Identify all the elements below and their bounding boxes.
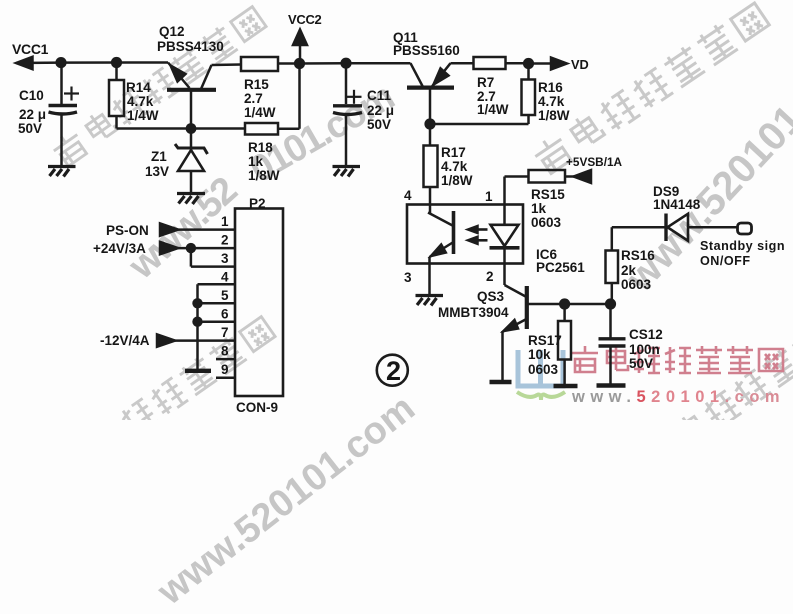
svg-text:1: 1 (221, 214, 229, 229)
svg-text:Standby sign: Standby sign (700, 239, 785, 253)
ground bar under RS17 (554, 384, 578, 388)
svg-text:4.7k: 4.7k (127, 94, 154, 109)
svg-text:2.7: 2.7 (244, 91, 263, 106)
wire QS3 base rail (565, 303, 611, 306)
opto light arrows (468, 226, 488, 244)
P2 pin 8 stub (216, 358, 235, 361)
svg-text:4.7k: 4.7k (538, 94, 565, 109)
watermark pseudo-CJK glyph rows + site logo (0, 0, 793, 420)
svg-text:C11: C11 (367, 88, 392, 103)
site url line (572, 388, 785, 407)
svg-text:+5VSB/1A: +5VSB/1A (566, 155, 623, 169)
P2 pin 6 stub (192, 317, 235, 327)
svg-text:7: 7 (221, 325, 229, 340)
svg-text:1k: 1k (531, 201, 547, 216)
svg-text:CON-9: CON-9 (236, 400, 278, 415)
svg-text:MMBT3904: MMBT3904 (438, 305, 509, 320)
transistor QS3 (503, 286, 565, 382)
svg-text:1/4W: 1/4W (127, 108, 159, 123)
capacitor C10 (49, 63, 80, 166)
svg-text:4.7k: 4.7k (441, 159, 468, 174)
svg-text:2: 2 (221, 233, 229, 248)
net +5VSB arrow (574, 170, 592, 183)
net VD arrow (529, 58, 568, 70)
transistor Q11 (407, 63, 474, 124)
svg-text:1/8W: 1/8W (441, 173, 473, 188)
watermark band C (top-right diagonal) (531, 0, 771, 177)
svg-text:PC2561: PC2561 (536, 260, 585, 275)
watermark band F (bottom-center diagonal tail) (150, 387, 423, 614)
zener Z1 (175, 129, 208, 194)
svg-text:RS16: RS16 (621, 248, 655, 263)
wire pin2 to pin3 (191, 248, 235, 267)
wire opto pin1 to RS15 (505, 177, 529, 205)
P2 pin 2 stub + 24V wire (160, 242, 235, 254)
connector P2 box (235, 209, 283, 397)
svg-text:1k: 1k (248, 154, 264, 169)
watermark band B upper segment (243, 76, 401, 192)
svg-text:Q12: Q12 (159, 24, 185, 39)
svg-text:1/4W: 1/4W (244, 105, 276, 120)
standby connector tag (738, 223, 752, 234)
svg-text:RS15: RS15 (531, 187, 565, 202)
svg-text:P2: P2 (249, 196, 266, 211)
resistor RS15 (529, 170, 577, 183)
P2 pin 5 stub (192, 298, 235, 308)
svg-text:RS17: RS17 (528, 333, 562, 348)
node junction RS17 (559, 298, 570, 309)
watermark band B (center diagonal www.520101.com) (121, 170, 245, 288)
ground under opto pin 3 (416, 296, 444, 306)
svg-text:0603: 0603 (528, 362, 559, 377)
node junction on VCC1 at R14 (111, 57, 122, 68)
svg-text:PS-ON: PS-ON (106, 223, 149, 238)
P2 pin 4 stub and tie line (198, 284, 236, 371)
watermark band D (right diagonal www.520101.com) (618, 29, 793, 301)
capacitor CS12 (599, 304, 626, 385)
svg-text:4: 4 (404, 188, 412, 203)
svg-text:1/8W: 1/8W (538, 108, 570, 123)
svg-text:22 μ: 22 μ (19, 107, 46, 122)
svg-text:PBSS4130: PBSS4130 (157, 39, 224, 54)
opto LED (pins 1,2) (490, 205, 520, 264)
ground under Z1 (177, 194, 205, 205)
node junction base/Z1 (186, 123, 197, 134)
svg-text:22 μ: 22 μ (367, 103, 394, 118)
node junction Q11 base / R17 (424, 118, 435, 129)
svg-text:2: 2 (386, 356, 401, 386)
node junction VCC2 (294, 58, 305, 69)
net VCC2 arrow (293, 30, 307, 64)
svg-text:0603: 0603 (531, 215, 562, 230)
watermark band A (top-left diagonal) (49, 4, 267, 169)
transistor Q12 (167, 63, 241, 129)
watermark band G (bottom-right diagonal) (641, 306, 793, 471)
resistor R17 (424, 124, 438, 205)
site logo open book (blue) with green brace (517, 350, 565, 400)
wire VCC2 rail to C11 (300, 62, 347, 65)
svg-text:4: 4 (221, 270, 229, 285)
svg-text:5: 5 (221, 288, 229, 303)
svg-text:50V: 50V (18, 121, 42, 136)
svg-text:VCC1: VCC1 (12, 41, 49, 57)
watermark band E (bottom-left diagonal) (58, 314, 276, 479)
svg-text:VCC2: VCC2 (288, 12, 322, 27)
net VCC1 arrow (16, 57, 61, 69)
MAIN SCHEMATIC (0, 0, 793, 420)
node junction VD (523, 58, 534, 69)
svg-text:10k: 10k (528, 347, 551, 362)
node junction on VCC1 at C10 (55, 57, 66, 68)
P2 pin 7 stub + -12V wire (157, 334, 235, 346)
svg-text:2k: 2k (621, 263, 637, 278)
svg-text:R14: R14 (126, 80, 151, 95)
svg-text:8: 8 (221, 344, 229, 359)
svg-text:1/8W: 1/8W (248, 168, 280, 183)
svg-text:50V: 50V (367, 117, 391, 132)
wire VCC1 rail (61, 61, 168, 64)
svg-text:C10: C10 (19, 88, 44, 103)
svg-text:R17: R17 (441, 145, 466, 160)
svg-text:3: 3 (404, 270, 412, 285)
svg-text:VD: VD (571, 57, 589, 72)
wire C11 to Q11 (346, 62, 411, 65)
svg-text:R18: R18 (248, 140, 273, 155)
ground under C11 (333, 167, 361, 177)
optocoupler IC6 box (407, 205, 523, 264)
svg-text:3: 3 (221, 251, 229, 266)
svg-text:1N4148: 1N4148 (653, 197, 701, 212)
svg-text:Z1: Z1 (151, 149, 167, 164)
svg-text:2: 2 (486, 269, 494, 284)
node junction pin2 tie (186, 243, 196, 253)
svg-text:1/4W: 1/4W (477, 102, 509, 117)
svg-text:PBSS5160: PBSS5160 (393, 43, 460, 58)
svg-text:9: 9 (221, 362, 229, 377)
svg-text:0603: 0603 (621, 277, 652, 292)
ground under C10 (48, 167, 76, 177)
svg-text:ON/OFF: ON/OFF (700, 254, 751, 268)
node junction RS16/CS12 (605, 298, 616, 309)
resistor R16 (430, 64, 535, 125)
ground bar under QS3 (490, 380, 512, 384)
wire opto pin2 to QS3 (505, 264, 527, 298)
resistor R7 (474, 57, 529, 69)
ground bar under CS12 (597, 383, 626, 387)
svg-text:100n: 100n (629, 342, 660, 357)
resistor R18 (245, 64, 300, 135)
svg-text:+24V/3A: +24V/3A (93, 241, 146, 256)
capacitor C11 (333, 63, 362, 166)
section mark circle 2 (377, 355, 408, 386)
resistor RS16 (606, 227, 619, 304)
svg-text:CS12: CS12 (629, 327, 663, 342)
svg-text:1: 1 (485, 189, 493, 204)
svg-text:R15: R15 (244, 77, 269, 92)
diode DS9 (612, 214, 738, 242)
ground bar under P2 tie (185, 369, 211, 373)
svg-text:R16: R16 (538, 80, 563, 95)
svg-text:-12V/4A: -12V/4A (100, 333, 150, 348)
svg-text:QS3: QS3 (477, 289, 505, 304)
svg-text:13V: 13V (145, 164, 169, 179)
svg-text:6: 6 (221, 307, 229, 322)
node junction C11 (340, 58, 351, 69)
resistor RS17 (558, 304, 571, 386)
wire R14/Q12 base to R18 (117, 127, 246, 130)
svg-text:R7: R7 (477, 75, 494, 90)
resistor R15 (241, 57, 299, 71)
svg-text:50V: 50V (629, 356, 653, 371)
P2 pin 1 stub + PS-ON wire (160, 223, 235, 235)
P2 pin 9 stub (216, 376, 235, 379)
site watermark pink glyph row (572, 346, 783, 373)
opto phototransistor (pins 4,3) (428, 205, 454, 296)
resistor R14 (109, 63, 124, 129)
